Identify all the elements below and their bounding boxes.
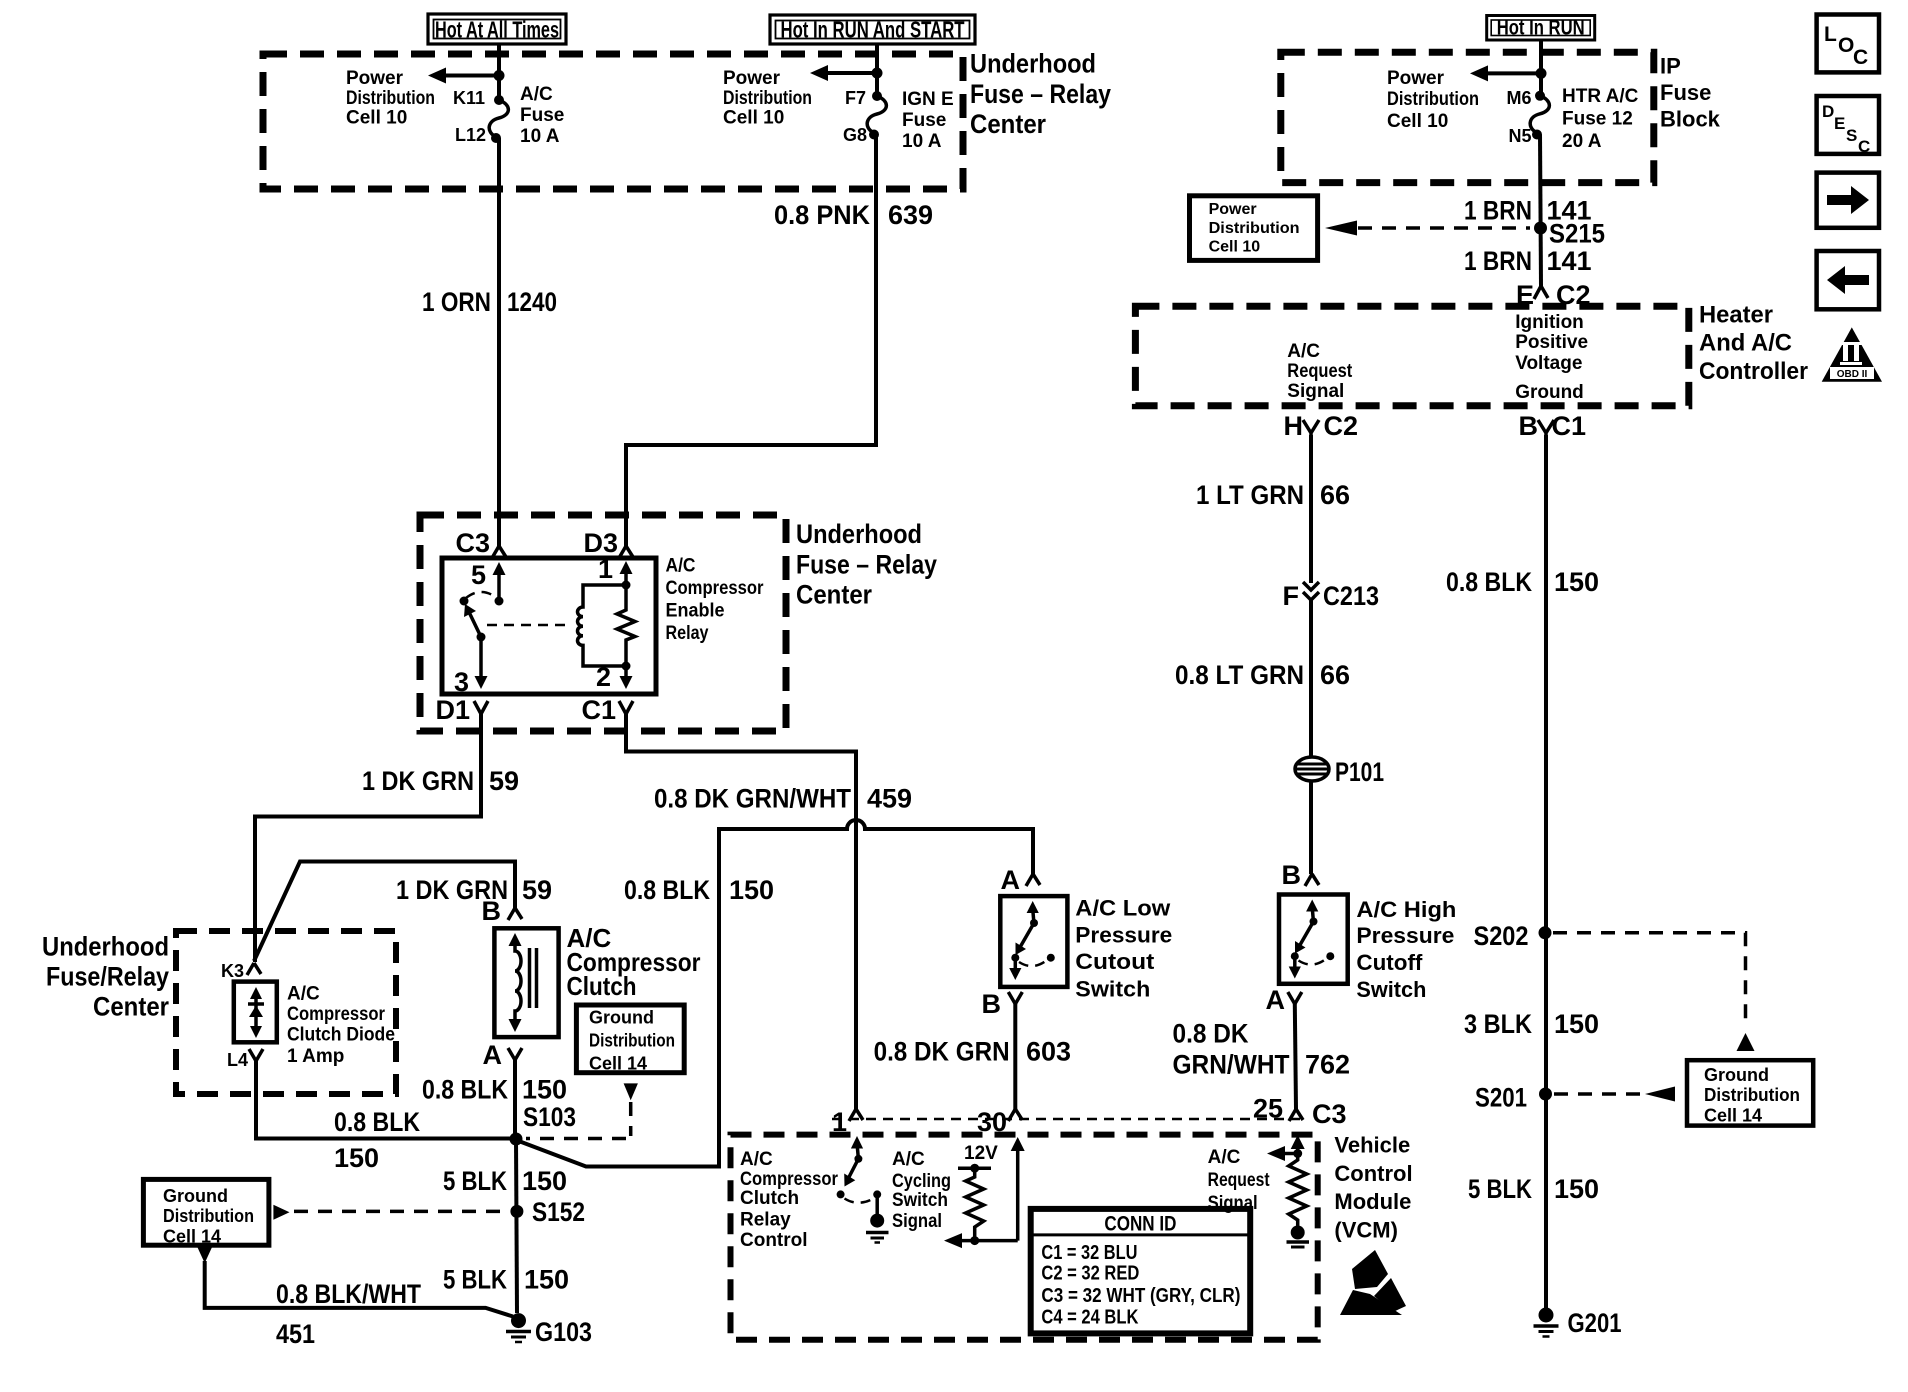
ground G103 <box>506 1313 592 1347</box>
connector B: high pressure switch top <box>1282 860 1320 890</box>
component box: A/C High Pressure Cutoff Switch <box>1279 895 1348 984</box>
VCM internal: clutch relay control switch <box>837 1136 889 1243</box>
label: 1 BRN | 141 (upper) <box>1464 196 1592 226</box>
label: 0.8 DK GRN/WHT | 459 <box>654 784 912 814</box>
svg-text:K11: K11 <box>453 88 485 108</box>
svg-text:0.8 BLK: 0.8 BLK <box>422 1075 508 1105</box>
svg-text:Distribution: Distribution <box>346 88 435 109</box>
svg-text:0.8 DK: 0.8 DK <box>1173 1019 1249 1049</box>
label: A/C Compressor Clutch Diode 1 Amp <box>287 984 395 1068</box>
relay mechanical linkage dashed line <box>487 624 570 627</box>
svg-text:Distribution: Distribution <box>723 88 812 109</box>
text: A/C Request Signal (VCM) <box>1208 1147 1271 1214</box>
dashed box: Vehicle Control Module (VCM) <box>731 1135 1318 1340</box>
label: 3 BLK | 150 <box>1464 1009 1599 1039</box>
svg-text:Signal: Signal <box>892 1211 942 1232</box>
wire: 0.8 BLK 150 controller ground down to G201 <box>1544 435 1548 1313</box>
svg-text:0.8 DK GRN/WHT: 0.8 DK GRN/WHT <box>654 784 851 814</box>
svg-text:Distribution: Distribution <box>589 1031 675 1051</box>
svg-text:141: 141 <box>1547 246 1592 276</box>
svg-text:Control: Control <box>740 1230 808 1251</box>
svg-text:Cell 14: Cell 14 <box>589 1054 647 1074</box>
svg-text:C2: C2 <box>1324 411 1359 441</box>
svg-text:Switch: Switch <box>1075 977 1150 1002</box>
svg-text:Distribution: Distribution <box>1704 1085 1800 1105</box>
svg-text:A/C: A/C <box>666 556 696 577</box>
fuse: IGN E Fuse 10A (terminals F7/G8) <box>867 91 886 140</box>
arrow: left ground box to S152 <box>273 1205 289 1220</box>
dashed box: Underhood Fuse-Relay Center (relay) <box>420 515 786 731</box>
svg-text:Request: Request <box>1208 1170 1271 1191</box>
icon box: DESC <box>1817 96 1879 156</box>
dashed box: IP Fuse Block <box>1281 52 1654 182</box>
svg-text:0.8 BLK: 0.8 BLK <box>1446 567 1532 597</box>
wire: 0.8 LT GRN 66 from C213 down to P101 <box>1309 600 1313 758</box>
svg-text:E: E <box>1834 114 1845 133</box>
svg-text:Pressure: Pressure <box>1356 923 1454 948</box>
svg-text:B: B <box>982 989 1002 1019</box>
svg-text:S215: S215 <box>1549 219 1605 249</box>
dashed link: ground distribution to S103 <box>526 1102 631 1139</box>
svg-text:Cell 14: Cell 14 <box>1704 1106 1762 1126</box>
svg-text:C1: C1 <box>581 695 616 725</box>
svg-text:F: F <box>1283 581 1300 611</box>
svg-text:B: B <box>1519 411 1539 441</box>
svg-text:Fuse: Fuse <box>520 105 564 126</box>
svg-text:A/C: A/C <box>1287 341 1320 362</box>
label: 1 DK GRN | 59 (upper) <box>362 766 519 796</box>
text: IGN E Fuse 10 A <box>902 89 954 152</box>
svg-text:1 ORN: 1 ORN <box>422 287 491 317</box>
svg-text:150: 150 <box>1554 1009 1599 1039</box>
svg-text:Control: Control <box>1334 1161 1412 1186</box>
wire: 0.8 BLK 150 from clutch A down to S103 <box>513 1060 517 1139</box>
svg-text:A: A <box>1001 865 1021 895</box>
symbol: OBD II triangle <box>1822 327 1882 381</box>
svg-text:B: B <box>482 896 502 926</box>
solid box: Ground Distribution Cell 14 (mid) <box>576 1005 684 1074</box>
connector L4 <box>227 1049 263 1070</box>
node S103 <box>510 1102 577 1146</box>
svg-text:Center: Center <box>970 109 1046 139</box>
low pressure switch internals <box>1009 901 1055 980</box>
svg-text:5 BLK: 5 BLK <box>443 1166 507 1196</box>
wire arrow: to Power Distribution Cell 10 (IP) <box>1470 65 1541 81</box>
icon box: LOC <box>1817 15 1879 73</box>
svg-text:M6: M6 <box>1506 88 1531 108</box>
icon box: arrow left <box>1817 251 1879 309</box>
svg-text:Cycling: Cycling <box>892 1171 951 1192</box>
svg-text:K3: K3 <box>221 961 244 981</box>
svg-text:Ground: Ground <box>1704 1065 1769 1085</box>
svg-text:Signal: Signal <box>1287 381 1344 402</box>
node S215 <box>1534 219 1605 249</box>
relay resistor (main branch) <box>617 585 635 666</box>
connector pin 30 (VCM) <box>977 1107 1022 1137</box>
svg-text:1 BRN: 1 BRN <box>1464 246 1532 276</box>
ground G201 <box>1534 1308 1622 1339</box>
svg-text:L: L <box>1824 23 1837 46</box>
label: 1 LT GRN | 66 <box>1196 480 1350 510</box>
svg-text:25: 25 <box>1253 1094 1283 1124</box>
label: Underhood Fuse - Relay Center (top right of box) <box>970 49 1111 140</box>
clutch coil symbol <box>509 933 537 1032</box>
svg-text:HTR A/C: HTR A/C <box>1562 86 1639 107</box>
svg-text:Relay: Relay <box>666 623 709 644</box>
connector pin 1 (VCM) <box>832 1107 863 1137</box>
svg-text:Vehicle: Vehicle <box>1334 1133 1410 1158</box>
svg-text:Power: Power <box>1387 68 1445 89</box>
svg-text:59: 59 <box>489 766 519 796</box>
label: 5 BLK | 150 (upper) <box>443 1166 567 1196</box>
connector K3 <box>221 961 261 981</box>
svg-text:Switch: Switch <box>1356 977 1426 1002</box>
relay box: A/C Compressor Enable Relay <box>442 558 656 694</box>
relay switch blade with arrowhead <box>464 604 486 642</box>
diode box: A/C Compressor Clutch Diode <box>234 982 277 1043</box>
text: A/C Compressor Clutch Relay Control <box>740 1149 839 1251</box>
svg-text:Pressure: Pressure <box>1075 923 1172 948</box>
svg-text:Cell 14: Cell 14 <box>163 1227 221 1247</box>
arrow: ground distribution link down (mid) <box>624 1083 638 1100</box>
svg-text:O: O <box>1838 34 1854 57</box>
label: 0.8 BLK/WHT / 451 <box>276 1279 421 1349</box>
svg-text:Power: Power <box>346 68 404 89</box>
wire: 0.8 BLK/WHT 451 from ground box to G103 <box>205 1261 513 1317</box>
diode symbol with arrows <box>248 987 264 1038</box>
svg-text:Hot In RUN And START: Hot In RUN And START <box>781 17 965 43</box>
svg-text:5 BLK: 5 BLK <box>443 1265 507 1295</box>
VCM internal: A/C request signal pull-down <box>1267 1135 1309 1247</box>
svg-text:Ground: Ground <box>163 1186 228 1206</box>
svg-text:Clutch: Clutch <box>567 971 637 1001</box>
svg-text:Distribution: Distribution <box>1209 220 1300 237</box>
label: 5 BLK | 150 (right) <box>1468 1174 1599 1204</box>
connector A: high pressure switch bottom <box>1266 985 1302 1015</box>
connector B: low pressure switch bottom <box>982 989 1023 1019</box>
text: A/C Cycling Switch Signal <box>892 1149 951 1232</box>
node S152 <box>510 1197 585 1227</box>
label: 0.8 BLK / 150 (two line, L4 wire) <box>334 1107 420 1173</box>
svg-text:A: A <box>1266 985 1286 1015</box>
relay coil (left branch) <box>578 585 627 666</box>
label: A/C High Pressure Cutoff Switch <box>1356 897 1456 1002</box>
node: junction at power distribution arrow (left fuse) <box>494 70 505 81</box>
svg-text:Clutch Diode: Clutch Diode <box>287 1025 395 1046</box>
svg-text:762: 762 <box>1305 1050 1350 1080</box>
svg-text:A/C: A/C <box>287 984 320 1005</box>
svg-text:150: 150 <box>1554 1174 1599 1204</box>
svg-text:Power: Power <box>723 68 781 89</box>
svg-text:CONN ID: CONN ID <box>1104 1213 1176 1236</box>
connector C3: relay feed in <box>455 528 506 558</box>
svg-text:Cell 10: Cell 10 <box>1387 111 1448 132</box>
wire: 0.8 DK GRN 603 from switch B down to VCM pin 30 <box>1013 1004 1017 1109</box>
svg-text:C1: C1 <box>1552 411 1587 441</box>
svg-text:G103: G103 <box>535 1317 592 1347</box>
svg-text:(VCM): (VCM) <box>1334 1218 1398 1243</box>
connector B: compressor clutch top <box>482 896 523 926</box>
svg-text:A/C: A/C <box>892 1149 925 1170</box>
wire: 0.8 DK GRN/WHT 459 from C1 down, right, down to VCM pin 1 <box>626 714 856 1109</box>
text: Power Distribution Cell 10 (left) <box>346 68 435 129</box>
svg-text:Fuse: Fuse <box>1660 80 1711 105</box>
svg-text:C: C <box>1853 46 1868 69</box>
svg-text:P101: P101 <box>1335 757 1384 787</box>
wire: 0.8 BLK 150 from L4 down and right to S103 <box>256 1061 512 1139</box>
svg-text:C3: C3 <box>1312 1099 1347 1129</box>
wire: 1 BRN 141 from fuse N5 down to controller E-C2 <box>1540 135 1541 287</box>
svg-text:S: S <box>1846 126 1857 145</box>
wire: 1 DK GRN 59 branch from K3 diagonal up and right to clutch B <box>254 862 515 962</box>
wire: 0.8 DK GRN/WHT 762 from switch A down to VCM pin 25 <box>1295 1004 1296 1109</box>
label: 1 ORN | 1240 <box>422 287 557 317</box>
svg-text:3: 3 <box>454 667 469 697</box>
wire: 1 ORN 1240 from fuse L12 down to relay C3 <box>497 138 501 546</box>
svg-text:G201: G201 <box>1568 1308 1622 1338</box>
VCM internal: 12V pull-up and cycling switch signal path <box>944 1137 1025 1248</box>
svg-text:5: 5 <box>471 560 486 590</box>
svg-text:Cell 10: Cell 10 <box>346 108 407 129</box>
connector F / C213 (in-line) <box>1283 581 1380 611</box>
svg-text:OBD II: OBD II <box>1837 369 1868 380</box>
svg-text:0.8 DK GRN: 0.8 DK GRN <box>874 1037 1010 1067</box>
connector C1: relay coil ground out <box>581 695 633 725</box>
icon box: arrow right <box>1817 173 1879 228</box>
svg-text:0.8 BLK/WHT: 0.8 BLK/WHT <box>276 1279 421 1309</box>
text: Power Distribution Cell 10 (mid) <box>723 68 812 129</box>
svg-text:459: 459 <box>867 784 912 814</box>
label: 1 DK GRN | 59 (lower) <box>396 875 552 905</box>
svg-text:Fuse – Relay: Fuse – Relay <box>796 550 937 580</box>
svg-text:150: 150 <box>524 1265 569 1295</box>
wire: 0.8 PNK 639 from fuse G8 down, left, down to relay D3 <box>626 135 876 547</box>
svg-text:150: 150 <box>522 1166 567 1196</box>
wire: battery feed down to A/C fuse K11 <box>497 44 501 100</box>
svg-text:Center: Center <box>796 580 872 610</box>
connector A: low pressure switch top <box>1001 865 1041 895</box>
svg-text:150: 150 <box>522 1075 567 1105</box>
label box: Hot In RUN <box>1487 16 1595 41</box>
high pressure switch internals <box>1289 900 1335 979</box>
fuse: A/C Fuse 10A (terminals K11/L12) <box>489 95 508 143</box>
svg-text:IGN E: IGN E <box>902 89 954 110</box>
svg-text:Fuse: Fuse <box>902 110 946 131</box>
svg-text:0.8 BLK: 0.8 BLK <box>624 875 710 905</box>
wire: ignition feed down to IGN E fuse F7 <box>875 44 879 96</box>
svg-text:1: 1 <box>598 554 613 584</box>
svg-text:C1 = 32 BLU: C1 = 32 BLU <box>1041 1242 1137 1264</box>
svg-text:0.8 BLK: 0.8 BLK <box>334 1107 420 1137</box>
svg-text:0.8 PNK: 0.8 PNK <box>774 200 870 230</box>
svg-text:Cell 10: Cell 10 <box>723 108 784 129</box>
svg-text:H: H <box>1284 411 1304 441</box>
label: 0.8 DK / GRN/WHT | 762 <box>1173 1019 1351 1080</box>
dashed arrow: S215 to Power Distribution Cell 10 <box>1325 221 1530 236</box>
svg-text:F7: F7 <box>845 88 866 108</box>
svg-text:Fuse – Relay: Fuse – Relay <box>970 79 1111 109</box>
label: 0.8 DK GRN | 603 <box>874 1037 1071 1067</box>
svg-text:1: 1 <box>832 1107 847 1137</box>
relay pin 5 arrow <box>471 560 506 601</box>
wire arrow: to Power Distribution Cell 10 (left) <box>428 68 499 84</box>
svg-text:Underhood: Underhood <box>796 519 922 549</box>
connector B / C1: controller ground out <box>1519 411 1587 441</box>
label box: Hot At All Times <box>428 14 566 44</box>
svg-text:150: 150 <box>1554 567 1599 597</box>
svg-text:1 BRN: 1 BRN <box>1464 196 1532 226</box>
connector E / C2: controller ignition feed <box>1516 280 1591 310</box>
relay node: pin2 junction <box>622 662 631 671</box>
label: 0.8 LT GRN | 66 <box>1175 660 1350 690</box>
svg-text:20 A: 20 A <box>1562 131 1602 152</box>
svg-text:D: D <box>1822 102 1834 121</box>
svg-text:A/C Low: A/C Low <box>1075 896 1171 921</box>
label: Vehicle Control Module (VCM) <box>1334 1133 1412 1243</box>
wire: 1 DK GRN 59 from D1 down, left, down to K3 <box>255 714 481 962</box>
solid box: Ground Distribution Cell 14 (left) <box>143 1179 269 1246</box>
connector pin 25 / C3 (VCM) <box>1253 1094 1347 1130</box>
fuse: HTR A/C Fuse 12 20A (terminals M6/N5) <box>1530 91 1549 140</box>
relay pin 1 arrow <box>598 554 633 585</box>
svg-text:C213: C213 <box>1323 581 1379 611</box>
svg-text:Compressor: Compressor <box>666 578 765 599</box>
label: A/C Compressor Clutch <box>567 923 701 1001</box>
svg-text:S201: S201 <box>1475 1083 1527 1113</box>
svg-text:IP: IP <box>1660 54 1681 79</box>
svg-text:Fuse 12: Fuse 12 <box>1562 109 1633 130</box>
label: A/C Low Pressure Cutout Switch <box>1075 896 1172 1002</box>
svg-text:Ignition: Ignition <box>1515 312 1584 333</box>
svg-text:Heater: Heater <box>1699 302 1773 329</box>
wire: 0.8 BLK 150 from S103 up to A/C low pressure switch A (with hop over 459 wire) <box>520 820 1033 1167</box>
relay pin 2 wire and arrow <box>596 662 633 692</box>
svg-text:66: 66 <box>1320 480 1350 510</box>
label: 0.8 BLK | 150 (right) <box>1446 567 1599 597</box>
symbol: ESD sensitive device (triangles) <box>1340 1250 1406 1315</box>
svg-text:150: 150 <box>334 1143 379 1173</box>
svg-text:Ground: Ground <box>1515 382 1584 403</box>
node: junction at power distribution arrow (mid fuse) <box>872 68 883 79</box>
label: 0.8 BLK | 150 (clutch ground) <box>422 1075 567 1105</box>
component box: A/C Compressor Clutch <box>494 928 558 1037</box>
svg-text:Cutout: Cutout <box>1075 949 1155 974</box>
label box: Hot In RUN And START <box>770 15 975 44</box>
dashed link: S202 to ground distribution (right) <box>1553 933 1755 1051</box>
text: Ignition Positive Voltage / Ground (controller) <box>1515 312 1588 403</box>
svg-text:10 A: 10 A <box>902 131 942 152</box>
svg-text:A/C High: A/C High <box>1356 897 1456 922</box>
connector H / C2: controller request out <box>1284 411 1359 441</box>
svg-text:451: 451 <box>276 1319 315 1349</box>
svg-text:A: A <box>483 1040 503 1070</box>
label: 5 BLK | 150 (lower) <box>443 1265 569 1295</box>
svg-text:1 Amp: 1 Amp <box>287 1046 344 1067</box>
label: Underhood Fuse/Relay Center (left) <box>42 932 169 1022</box>
svg-text:S202: S202 <box>1474 921 1529 951</box>
svg-text:C2 = 32 RED: C2 = 32 RED <box>1041 1263 1139 1285</box>
svg-text:603: 603 <box>1026 1037 1071 1067</box>
svg-text:Center: Center <box>93 992 169 1022</box>
svg-text:Clutch: Clutch <box>740 1188 799 1209</box>
label: 1 BRN | 141 (lower) <box>1464 246 1592 276</box>
svg-text:150: 150 <box>729 875 774 905</box>
svg-text:C: C <box>1858 137 1870 156</box>
connector D3: relay coil feed in <box>583 528 633 558</box>
svg-text:1 LT GRN: 1 LT GRN <box>1196 480 1304 510</box>
svg-text:Block: Block <box>1660 107 1721 132</box>
svg-text:Controller: Controller <box>1699 358 1808 385</box>
svg-text:1 DK GRN: 1 DK GRN <box>362 766 474 796</box>
thin dashed line: VCM connector row <box>832 1118 1300 1121</box>
svg-text:66: 66 <box>1320 660 1350 690</box>
text: HTR A/C Fuse 12 20 A <box>1562 86 1639 152</box>
svg-text:C4 = 24 BLK: C4 = 24 BLK <box>1041 1307 1138 1329</box>
wire: 1 LT GRN 66 from controller H-C2 down <box>1309 435 1313 583</box>
label: IP Fuse Block <box>1660 54 1721 132</box>
svg-text:L4: L4 <box>227 1050 248 1070</box>
svg-text:L12: L12 <box>455 125 486 145</box>
label: Heater And A/C Controller <box>1699 302 1808 386</box>
svg-text:Power: Power <box>1209 201 1257 218</box>
svg-text:C3 = 32 WHT (GRY, CLR): C3 = 32 WHT (GRY, CLR) <box>1041 1285 1240 1307</box>
table: CONN ID <box>1031 1209 1251 1334</box>
svg-text:10 A: 10 A <box>520 126 560 147</box>
svg-text:639: 639 <box>888 200 933 230</box>
grommet P101 <box>1295 757 1384 787</box>
relay node: pin1 junction <box>622 581 631 590</box>
wire: from P101 down to high pressure switch B <box>1309 781 1313 874</box>
svg-text:Hot At All Times: Hot At All Times <box>435 17 559 43</box>
svg-text:S152: S152 <box>532 1197 585 1227</box>
dashed box: Heater And A/C Controller <box>1135 306 1688 405</box>
svg-text:30: 30 <box>977 1107 1007 1137</box>
text: A/C Request Signal (controller) <box>1287 341 1353 402</box>
svg-text:S103: S103 <box>523 1102 576 1132</box>
svg-text:2: 2 <box>596 662 611 692</box>
svg-text:Fuse/Relay: Fuse/Relay <box>46 962 169 992</box>
svg-text:Cell 10: Cell 10 <box>1209 239 1261 256</box>
svg-text:Switch: Switch <box>892 1190 948 1211</box>
dashed box: clutch diode enclosure <box>176 931 396 1094</box>
svg-text:Distribution: Distribution <box>1387 89 1479 110</box>
connector A: compressor clutch bottom <box>483 1040 523 1070</box>
svg-text:G8: G8 <box>843 125 867 145</box>
svg-text:B: B <box>1282 860 1302 890</box>
svg-text:A/C: A/C <box>740 1149 773 1170</box>
svg-text:Positive: Positive <box>1515 332 1588 353</box>
wire: 5 BLK 150 S103 down to G103 <box>516 1139 517 1313</box>
svg-text:Enable: Enable <box>666 601 725 622</box>
svg-text:Request: Request <box>1287 361 1353 382</box>
component box: A/C Low Pressure Cutout Switch <box>1000 896 1067 987</box>
arrow: ground distribution link down (left) <box>197 1247 212 1263</box>
svg-text:Relay: Relay <box>740 1210 791 1231</box>
relay switch actuation dashed arc <box>466 592 497 598</box>
dashed box: Underhood Fuse-Relay Center (top) <box>263 54 963 189</box>
label: A/C Compressor Enable Relay <box>666 556 765 645</box>
svg-text:A/C: A/C <box>520 84 553 105</box>
node S201 <box>1475 1083 1552 1113</box>
svg-text:5 BLK: 5 BLK <box>1468 1174 1532 1204</box>
text: A/C Fuse 10 A <box>520 84 564 147</box>
dashed link: left ground box to S152 <box>294 1210 505 1214</box>
node: junction at power distribution arrow (IP fuse) <box>1536 68 1547 79</box>
svg-text:D1: D1 <box>435 695 470 725</box>
relay switch: stationary contact dots <box>460 597 469 606</box>
node S202 <box>1474 921 1552 951</box>
svg-text:12V: 12V <box>964 1143 998 1164</box>
